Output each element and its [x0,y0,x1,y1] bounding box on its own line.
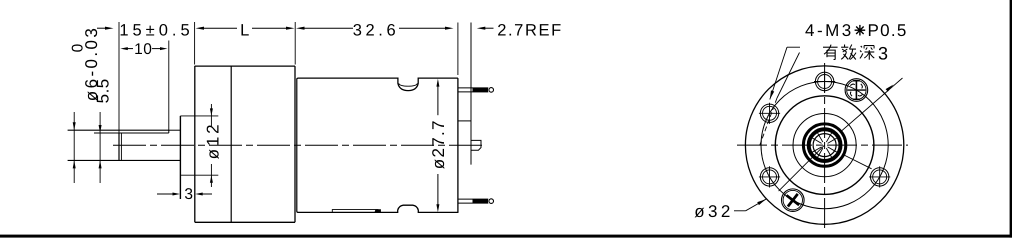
svg-text:4-M3: 4-M3 [805,21,854,40]
svg-text:P0.5: P0.5 [868,21,908,40]
svg-text:10: 10 [134,41,152,58]
svg-text:L: L [240,22,249,40]
svg-text:3: 3 [878,44,888,64]
svg-text:0: 0 [70,43,87,52]
svg-text:ø12: ø12 [203,122,222,160]
svg-text:ø27.7: ø27.7 [429,119,448,169]
svg-text:5.5: 5.5 [94,78,113,103]
svg-text:3: 3 [184,186,193,203]
svg-text:ø32: ø32 [694,202,734,221]
svg-text:2.7REF: 2.7REF [497,22,563,40]
svg-text:15±0.5: 15±0.5 [119,22,193,40]
svg-text:32.6: 32.6 [353,22,400,40]
